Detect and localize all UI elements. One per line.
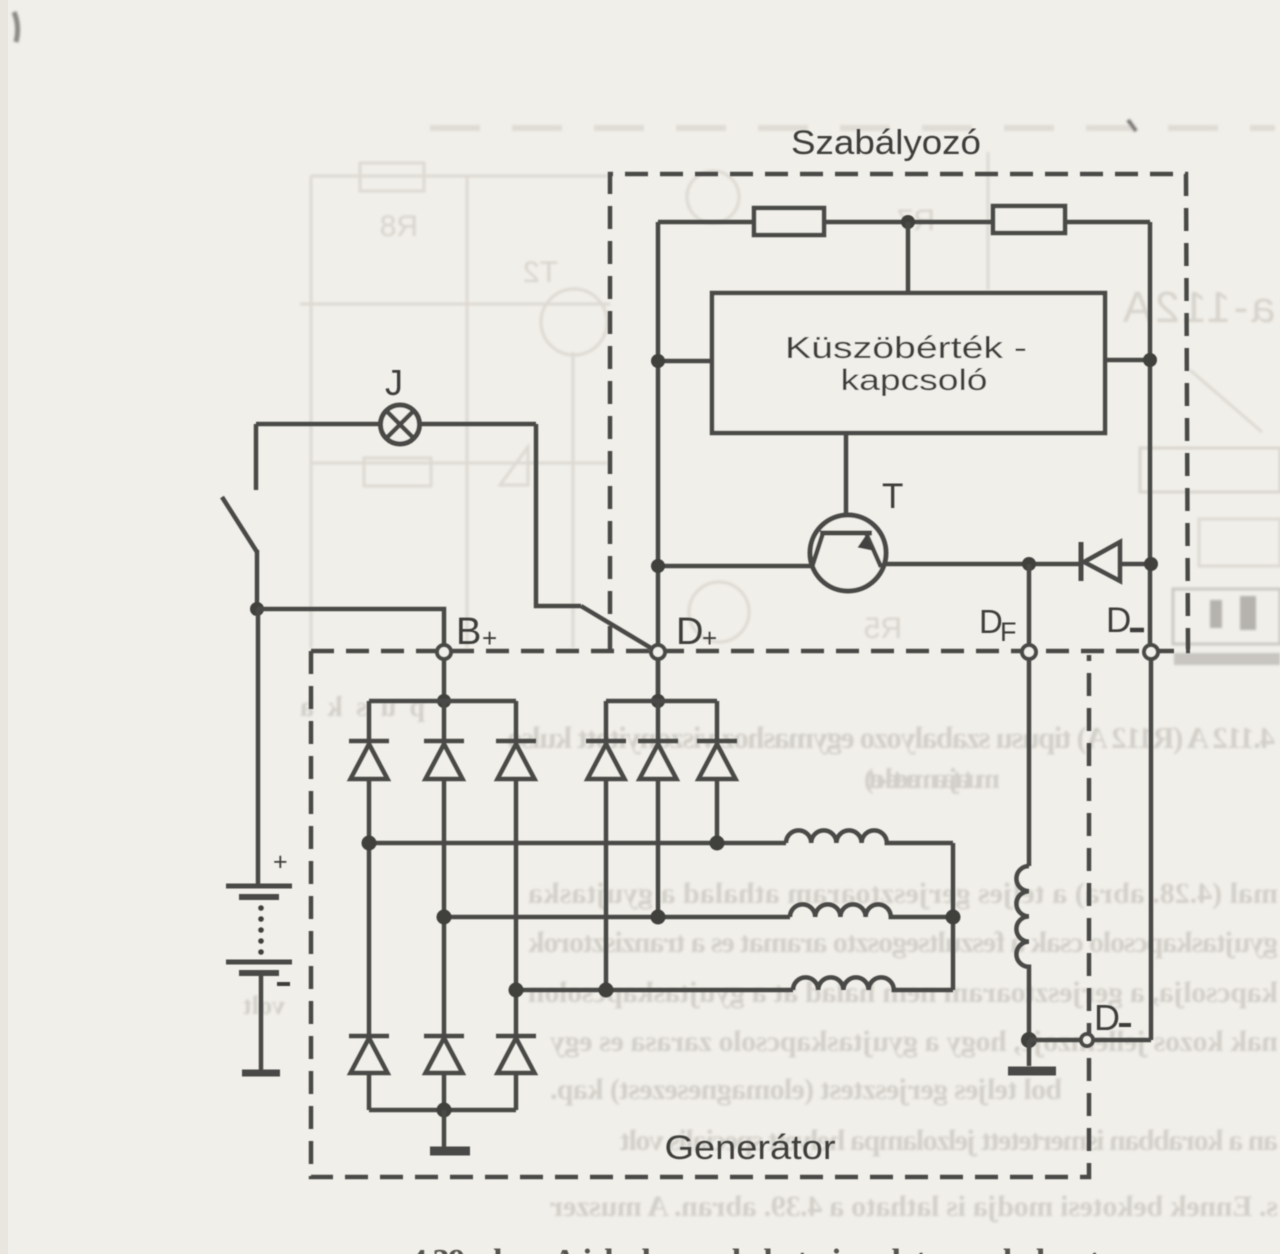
wire switch to node <box>255 550 260 609</box>
svg-text:Generátor: Generátor <box>665 1129 836 1167</box>
inductor stator winding 2 <box>790 904 953 917</box>
wire field bottom to D- <box>1029 1038 1151 1043</box>
wire anode bus <box>369 1108 516 1113</box>
wire phase C bus <box>516 988 793 993</box>
wire junction to threshold box <box>906 222 911 293</box>
node phase A right <box>710 836 725 851</box>
diode rectifier upper 2 <box>424 701 464 1036</box>
battery <box>226 884 292 889</box>
wire right cathode bus <box>606 699 717 704</box>
wire node to B+ <box>257 609 444 645</box>
threshold switch box Kuszobertek-kapcsolo <box>712 293 1105 433</box>
diode rectifier lower 2 <box>424 1036 464 1110</box>
svg-text:volt: volt <box>243 991 285 1020</box>
wire DF vertical <box>1027 564 1032 866</box>
svg-text:gyujtaskapcsolo csak a feszult: gyujtaskapcsolo csak a feszultsegoszto a… <box>528 926 1278 959</box>
wire star bracket <box>951 843 956 990</box>
svg-text:D: D <box>1106 601 1131 640</box>
svg-text:T: T <box>882 477 903 516</box>
node box right <box>1143 353 1157 367</box>
ghost bleed-through layer <box>430 125 1275 131</box>
svg-text:B: B <box>456 611 481 653</box>
switch blade D+ <box>581 606 656 651</box>
node DF junction <box>1022 557 1036 571</box>
terminal generator D- crossing <box>1081 1034 1093 1046</box>
wire lamp rail <box>256 422 536 427</box>
wire left vertical D+ branch <box>656 222 661 700</box>
node phase C mid <box>599 983 614 998</box>
diode rectifier upper 4 <box>586 701 626 990</box>
svg-text:mutatja a mereteket): mutatja a mereteket) <box>864 763 1000 795</box>
inductor stator winding 3 <box>793 977 953 990</box>
resistor R2 <box>993 206 1065 233</box>
generator dashed enclosure <box>311 651 1089 1177</box>
inductor field winding <box>1016 866 1029 1040</box>
svg-text:bol teljes gerjesztest (elomag: bol teljes gerjesztest (elomagnesezest) … <box>550 1073 1062 1106</box>
svg-text:s. Ennek bekotesi modja is lat: s. Ennek bekotesi modja is lathato a 4.3… <box>550 1190 1278 1223</box>
wire D- lower vertical <box>1149 657 1154 1040</box>
diode D1 <box>1079 542 1084 581</box>
node field bottom junction <box>1021 1032 1037 1048</box>
node B+ bus <box>437 694 451 708</box>
regulator dashed enclosure Szabalyozo <box>610 174 1188 649</box>
wire battery lead <box>256 609 261 884</box>
node D+ bus <box>651 694 665 708</box>
wire phase B bus <box>444 915 790 920</box>
wire box left lead <box>658 359 712 364</box>
terminal DF <box>1022 645 1036 659</box>
svg-text:Szabályozó: Szabályozó <box>791 124 981 162</box>
diode rectifier upper 3 <box>496 701 536 1036</box>
diode rectifier upper 1 <box>349 701 389 1036</box>
resistor R1 <box>754 208 824 235</box>
svg-text:R8: R8 <box>380 210 418 243</box>
lamp J <box>381 405 420 444</box>
node anode bus center <box>437 1103 452 1118</box>
ground generator <box>442 1110 447 1147</box>
wire battery top lead <box>254 424 259 490</box>
node D- junction <box>1144 557 1158 571</box>
svg-text:Ua-112A: Ua-112A <box>1122 283 1280 332</box>
wire emitter left <box>658 564 811 569</box>
svg-text:+: + <box>702 623 717 653</box>
wire D+ stub <box>656 657 661 701</box>
svg-text:+: + <box>482 623 497 653</box>
svg-text:nak kozos jellemzoje, hogy a g: nak kozos jellemzoje, hogy a gyujtaskapc… <box>550 1025 1278 1058</box>
diode rectifier lower 1 <box>349 1036 389 1110</box>
diode rectifier upper 5 <box>638 701 678 917</box>
svg-text:J: J <box>385 362 403 403</box>
svg-text:Küszöbérték -: Küszöbérték - <box>785 330 1027 365</box>
svg-text:4.39. abra. A jelzolampa bekot: 4.39. abra. A jelzolampa bekotesi vazlat… <box>410 1243 1101 1254</box>
node phase B mid <box>651 910 666 925</box>
node battery junction <box>250 602 264 616</box>
switch blade <box>222 497 257 552</box>
wire box right lead <box>1105 358 1150 363</box>
node box left <box>651 354 665 368</box>
ground field <box>1027 1040 1032 1066</box>
node emitter junction <box>651 559 665 573</box>
svg-text:T2: T2 <box>523 256 558 289</box>
svg-text:+: + <box>273 848 288 876</box>
svg-text:D: D <box>676 611 703 653</box>
wire left cathode bus <box>369 699 516 704</box>
wire top rail <box>658 220 1150 225</box>
wire collector right <box>885 562 1151 567</box>
transistor T <box>810 515 886 591</box>
wire right vertical D- branch <box>1148 222 1153 645</box>
terminal D+ <box>651 645 665 659</box>
svg-text:R5: R5 <box>864 612 902 645</box>
node phase A left <box>362 836 377 851</box>
diode rectifier upper 6 <box>697 701 737 843</box>
svg-text:kapcsolja, a gerjesztoaram nem: kapcsolja, a gerjesztoaram nem halad at … <box>528 976 1278 1009</box>
node top-center junction <box>901 215 915 229</box>
terminal D- <box>1144 645 1158 659</box>
svg-text:mal (4.28. abra) a teljes gerj: mal (4.28. abra) a teljes gerjesztoaram … <box>528 877 1278 910</box>
inductor stator winding 1 <box>786 830 953 843</box>
wire base lead <box>844 433 849 536</box>
diode rectifier lower 3 <box>496 1036 536 1110</box>
svg-text:kapcsoló: kapcsoló <box>841 364 988 397</box>
node phase B left <box>437 910 452 925</box>
svg-text:F: F <box>1000 617 1017 647</box>
dashed terminal rail <box>311 649 1190 654</box>
terminal B+ <box>437 645 451 659</box>
svg-text:4.112 A (R112 A) tipusu szabal: 4.112 A (R112 A) tipusu szabalyozo egyma… <box>507 720 1275 755</box>
svg-text:D: D <box>1094 997 1120 1038</box>
wire phase A bus <box>369 841 786 846</box>
wire lamp right to D+ <box>536 424 581 606</box>
node star point <box>946 910 961 925</box>
wire B+ stub <box>442 657 447 701</box>
node phase C left <box>509 983 524 998</box>
